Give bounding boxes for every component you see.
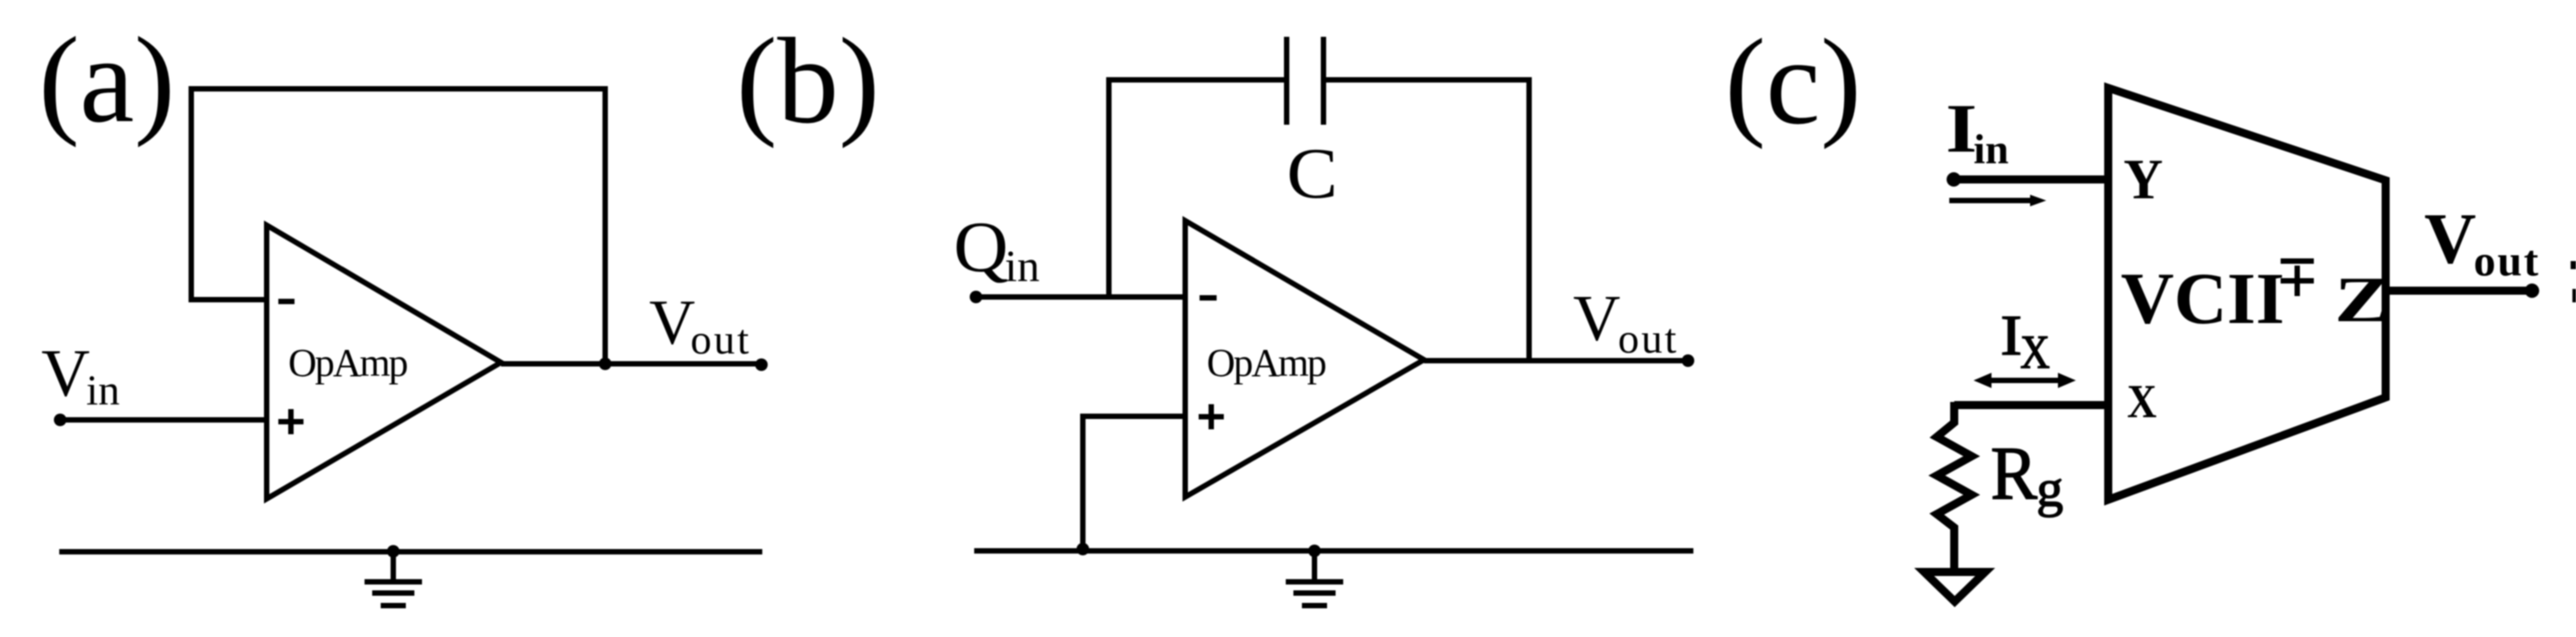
- svg-text:V: V: [41, 336, 90, 411]
- svg-text:(a): (a): [39, 12, 175, 148]
- svg-text:V: V: [1573, 282, 1621, 354]
- svg-text:Y: Y: [2123, 147, 2163, 211]
- svg-text:X: X: [2020, 327, 2050, 379]
- svg-text:R: R: [1991, 432, 2037, 516]
- svg-text:(b): (b): [736, 13, 880, 149]
- svg-text:out: out: [1618, 316, 1679, 362]
- svg-text:(c): (c): [1725, 13, 1861, 150]
- svg-text:in: in: [1974, 127, 2009, 173]
- svg-text:C: C: [1287, 135, 1338, 214]
- svg-text:g: g: [2036, 459, 2063, 518]
- svg-text:Q: Q: [954, 208, 1008, 287]
- svg-text:V: V: [2424, 200, 2476, 279]
- svg-text:out: out: [690, 317, 752, 363]
- svg-text:out: out: [2474, 236, 2540, 285]
- svg-text:I: I: [1946, 90, 1977, 167]
- svg-text:I: I: [2000, 304, 2022, 367]
- svg-text:V: V: [649, 288, 695, 358]
- svg-text:VCII: VCII: [2121, 257, 2284, 339]
- svg-text:in: in: [86, 367, 119, 414]
- svg-text:Z: Z: [2334, 264, 2390, 336]
- svg-text:OpAmp: OpAmp: [1207, 341, 1326, 385]
- svg-text:OpAmp: OpAmp: [288, 341, 408, 385]
- svg-text:X: X: [2127, 376, 2157, 428]
- svg-text:in: in: [1005, 240, 1040, 291]
